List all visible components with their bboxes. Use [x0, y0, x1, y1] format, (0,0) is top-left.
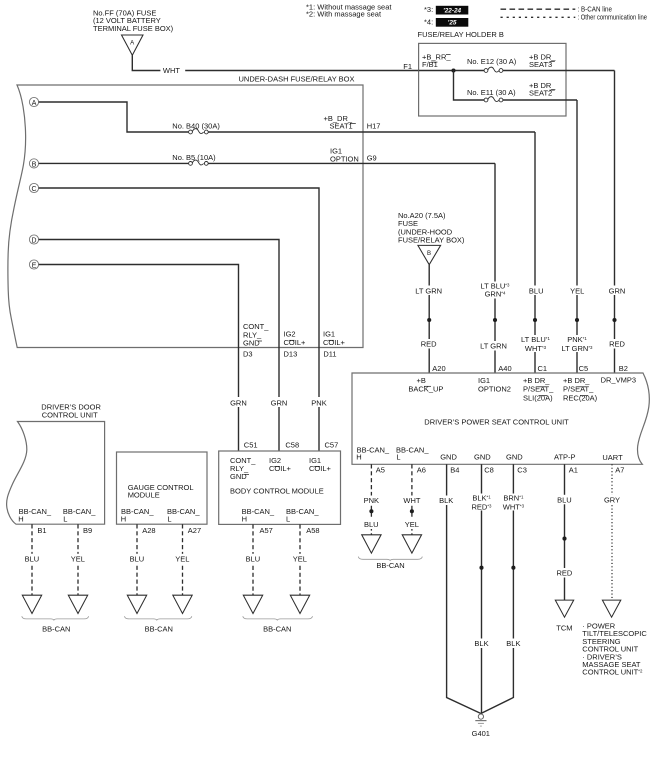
wire label BLU (A5) — [361, 520, 383, 530]
svg-text:’25: ’25 — [448, 20, 457, 27]
svg-text:C8: C8 — [484, 466, 494, 475]
driver's door control unit label — [41, 403, 101, 420]
node junction +B_RR — [451, 68, 455, 72]
wire column to A40 — [494, 163, 496, 373]
wire A28 BB-CAN H — [136, 524, 138, 595]
svg-text:GND: GND — [440, 452, 457, 461]
label IG1 OPTION — [330, 147, 359, 164]
svg-text:BB-CAN: BB-CAN — [42, 625, 70, 634]
off-page connector A28 — [127, 595, 146, 613]
svg-text:L: L — [167, 515, 171, 524]
svg-text:A5: A5 — [376, 466, 385, 475]
wire column to C5 — [576, 100, 578, 373]
node splice B2 — [612, 318, 616, 322]
label BB-CAN_L (body) — [286, 507, 319, 524]
svg-text:SEAT3: SEAT3 — [529, 60, 552, 69]
node splice A1 — [562, 537, 566, 541]
wire A1 ATP-P to TCM — [564, 464, 566, 600]
svg-text:RED: RED — [556, 569, 572, 578]
svg-text:C3: C3 — [517, 466, 527, 475]
label BB-CAN_L (gauge) — [167, 507, 200, 524]
svg-text:L: L — [286, 515, 290, 524]
off-page connector B1 — [22, 595, 41, 613]
wire H17 to C1 column — [363, 131, 535, 133]
driver's door control unit box — [7, 422, 105, 525]
label BB-CAN_L (seat) — [396, 445, 429, 461]
body control module box — [219, 451, 341, 524]
svg-text:*4:: *4: — [424, 17, 433, 26]
label +B DR_SEAT2 — [529, 81, 556, 97]
svg-text:REC(20A): REC(20A) — [563, 393, 598, 402]
node splice C8 — [479, 566, 483, 570]
wire node D to D13 — [39, 240, 279, 348]
wire label RED (A1) — [553, 568, 576, 578]
label BB-CAN_L (door) — [63, 507, 96, 524]
svg-text:C: C — [32, 186, 37, 193]
wire node A to fuse B40 — [39, 102, 189, 132]
svg-text:OPTION: OPTION — [330, 155, 359, 164]
wire label BLK lower (C8) — [470, 639, 493, 649]
svg-text:BODY CONTROL MODULE: BODY CONTROL MODULE — [230, 487, 324, 496]
svg-text:D3: D3 — [243, 350, 253, 359]
wire A27 BB-CAN L — [182, 524, 184, 595]
svg-text:D13: D13 — [284, 350, 298, 359]
svg-text:P/SEAT_: P/SEAT_ — [523, 385, 554, 394]
svg-text:BB-CAN_: BB-CAN_ — [396, 445, 429, 454]
wire D3 to C51 — [238, 348, 240, 452]
wire label BLU (C1) — [524, 286, 548, 296]
svg-text:WHT: WHT — [403, 496, 420, 505]
svg-text:A6: A6 — [417, 466, 426, 475]
svg-text:D11: D11 — [323, 350, 336, 359]
wire label PNK (A5) — [360, 496, 383, 506]
node splice C5 — [575, 318, 579, 322]
wire label YEL (A27) — [172, 554, 194, 564]
label +B DR_SEAT3 — [529, 52, 556, 69]
wire label PNK (D11-C57) — [308, 397, 331, 408]
under-dash fuse/relay box outline — [8, 85, 363, 348]
wire label LT GRN (A20) — [412, 286, 446, 296]
svg-text:OPTION2: OPTION2 — [478, 384, 511, 393]
svg-text:A7: A7 — [615, 466, 624, 475]
off-page connector A27 — [173, 595, 192, 613]
off-page connector B9 — [68, 595, 87, 613]
fuse No. B40 — [189, 129, 209, 134]
label CONT_RLY_GND (body) — [230, 456, 256, 481]
wire label BLK*1 RED*3 (C8) — [469, 493, 495, 511]
legend other communication line sample — [501, 13, 648, 22]
label IG2 COIL+ at D13 — [284, 330, 307, 348]
wire label BLU (A57) — [242, 554, 264, 564]
svg-text:BB-CAN_: BB-CAN_ — [63, 507, 96, 516]
fuse B symbol — [418, 245, 441, 264]
svg-text:B: B — [32, 161, 37, 168]
bracket BB-CAN (body) — [243, 616, 313, 620]
wire label YEL (A6) — [401, 520, 423, 530]
svg-text:BLU: BLU — [25, 554, 40, 563]
wire A58 BB-CAN L — [299, 524, 301, 595]
label IG1 COIL+ (body) — [309, 456, 332, 473]
wire label GRN (D13-C58) — [268, 397, 291, 408]
off-page connector A7 — [602, 600, 620, 617]
legend *4 year badge — [424, 17, 468, 26]
wire fuse B5 to G9 — [208, 162, 363, 164]
connector node A — [29, 97, 38, 107]
wire A6 BB-CAN L — [411, 464, 413, 535]
wire label GRN (B2) — [605, 286, 629, 296]
label power tilt/telescopic destination — [582, 622, 647, 677]
off-page connector A6 — [402, 535, 421, 553]
svg-text:DR_VMP3: DR_VMP3 — [601, 375, 636, 384]
svg-text:BLK: BLK — [474, 639, 488, 648]
svg-text:BLU: BLU — [557, 495, 572, 504]
wire C8 GND to G401 — [481, 464, 483, 714]
svg-text:YEL: YEL — [570, 286, 584, 295]
svg-text:UNDER-DASH FUSE/RELAY BOX: UNDER-DASH FUSE/RELAY BOX — [239, 75, 355, 84]
wire column to B2 — [614, 71, 616, 374]
svg-text:RED: RED — [609, 340, 625, 349]
svg-text:A58: A58 — [306, 526, 319, 535]
wire node B to fuse B5 — [39, 162, 189, 164]
legend *3 year badge — [424, 5, 468, 14]
svg-text:A: A — [32, 100, 37, 107]
svg-text:YEL: YEL — [71, 554, 85, 563]
wire label PNK*1 LT GRN*3 (C5) — [559, 335, 597, 353]
wire label BLU (B1) — [21, 554, 43, 564]
wire fuse A down to WHT run — [132, 55, 160, 70]
svg-text:LT GRN: LT GRN — [480, 342, 507, 351]
gauge control module label — [128, 483, 194, 500]
wire label YEL (A58) — [289, 554, 311, 564]
wire B9 BB-CAN L — [77, 524, 79, 595]
wire label BLU (A1) — [554, 495, 576, 505]
svg-text:CONTROL UNIT*2: CONTROL UNIT*2 — [582, 668, 643, 677]
wire label BLK (B4) — [435, 496, 458, 506]
svg-text:DRIVER’S POWER SEAT CONTROL UN: DRIVER’S POWER SEAT CONTROL UNIT — [424, 417, 569, 426]
svg-text:MODULE: MODULE — [128, 491, 160, 500]
svg-text:YEL: YEL — [175, 554, 189, 563]
svg-text:BB-CAN: BB-CAN — [376, 561, 404, 570]
connector node B — [29, 159, 38, 169]
wire label LT BLU*3 GRN*4 (A40) — [477, 282, 514, 299]
svg-text:COIL+: COIL+ — [309, 464, 332, 473]
svg-text:RED: RED — [421, 340, 437, 349]
svg-text:GRN: GRN — [609, 286, 626, 295]
bracket BB-CAN (door) — [22, 616, 89, 620]
bracket BB-CAN (gauge) — [125, 616, 192, 620]
svg-text:BB-CAN: BB-CAN — [145, 625, 173, 634]
svg-text:A57: A57 — [260, 526, 273, 535]
svg-text:BLK: BLK — [439, 496, 453, 505]
svg-text:H: H — [242, 515, 247, 524]
svg-text:GND: GND — [243, 339, 260, 348]
svg-text:ATP-P: ATP-P — [554, 452, 576, 461]
svg-text:B4: B4 — [450, 466, 459, 475]
svg-text:LT GRN*3: LT GRN*3 — [562, 344, 594, 353]
label +B_DR SEAT1 — [324, 114, 356, 131]
label IG2 COIL+ (body) — [269, 456, 292, 473]
label BB-CAN_H (seat) — [356, 445, 390, 461]
svg-text:TERMINAL FUSE BOX): TERMINAL FUSE BOX) — [93, 24, 174, 33]
off-page connector A1 — [555, 600, 573, 617]
wire A57 BB-CAN H — [252, 524, 254, 595]
wire column to C1 — [534, 132, 536, 373]
wire E12 fuse to right edge — [503, 70, 615, 72]
svg-text:BLU: BLU — [529, 286, 544, 295]
wire label GRY (A7) — [601, 495, 624, 505]
svg-text:A1: A1 — [569, 466, 578, 475]
label +B DR_ P/SEAT_ REC(20A) — [563, 376, 598, 402]
svg-text:YEL: YEL — [405, 520, 419, 529]
svg-text:E: E — [32, 262, 37, 269]
wire label BLU (A28) — [126, 554, 148, 564]
svg-text:P/SEAT_: P/SEAT_ — [563, 385, 594, 394]
svg-text:H: H — [121, 515, 126, 524]
svg-text:COIL+: COIL+ — [323, 338, 346, 347]
connector node C — [29, 183, 38, 193]
svg-text:BB-CAN_: BB-CAN_ — [167, 507, 200, 516]
wire bus F1 to fuse E12 — [419, 70, 485, 72]
svg-text:UART: UART — [602, 453, 623, 462]
wire D13 to C58 — [278, 348, 280, 452]
connector node D — [29, 235, 38, 245]
fuse No. B5 — [189, 160, 209, 165]
off-page connector A5 — [362, 535, 381, 553]
svg-text:A40: A40 — [498, 364, 511, 373]
fuse/relay holder B box — [419, 43, 566, 116]
svg-text:BACK_UP: BACK_UP — [408, 384, 443, 393]
svg-text:FUSE/RELAY BOX): FUSE/RELAY BOX) — [398, 236, 465, 245]
wire label RED (B2) — [606, 339, 629, 349]
svg-text:No. E12 (30 A): No. E12 (30 A) — [467, 57, 517, 66]
svg-text:H: H — [356, 453, 361, 462]
wire A7 UART dotted — [611, 464, 613, 600]
wire E11 branch — [454, 71, 485, 101]
svg-text:A27: A27 — [188, 526, 201, 535]
wire fuse B40 to H17 — [208, 131, 363, 133]
wire label RED (A20) — [417, 339, 441, 349]
svg-text:C5: C5 — [579, 364, 589, 373]
wire D11 to C57 — [318, 348, 320, 452]
fuse A symbol — [122, 35, 144, 55]
wire C3 GND to G401 — [481, 464, 514, 713]
svg-text:C58: C58 — [285, 440, 299, 449]
svg-text:D: D — [32, 237, 37, 244]
wire node C to D11 — [39, 188, 319, 348]
svg-text:COIL+: COIL+ — [269, 464, 292, 473]
svg-text:BLU: BLU — [246, 554, 261, 563]
svg-text:SLI(20A): SLI(20A) — [523, 393, 553, 402]
gauge control module box — [117, 452, 208, 524]
svg-text:F1: F1 — [403, 62, 412, 71]
svg-text:GRY: GRY — [604, 495, 620, 504]
svg-text:*3:: *3: — [424, 5, 433, 14]
svg-text:BLK: BLK — [506, 639, 520, 648]
node splice A6 — [410, 509, 414, 513]
label +B_RR F/B1 — [422, 52, 451, 69]
bracket BB-CAN (seat) — [358, 557, 422, 561]
wire E11 fuse to YEL column — [503, 99, 577, 101]
svg-text:COIL+: COIL+ — [284, 338, 307, 347]
node splice A20 — [427, 318, 431, 322]
node splice C1 — [533, 318, 537, 322]
svg-text:F/B1: F/B1 — [422, 60, 438, 69]
svg-text:C57: C57 — [325, 440, 339, 449]
svg-text:B9: B9 — [83, 526, 92, 535]
wire fuse B to A20 — [428, 265, 430, 373]
svg-text:H17: H17 — [367, 122, 381, 131]
off-page connector A57 — [243, 595, 262, 613]
wire B4 GND to G401 — [447, 464, 481, 713]
svg-text:A28: A28 — [142, 526, 155, 535]
battery fuse FF label — [93, 9, 174, 34]
wire B1 BB-CAN H — [31, 524, 33, 595]
node splice A5 — [369, 509, 373, 513]
wire label BRN*1 WHT*3 (C3) — [500, 493, 527, 511]
legend B-CAN line sample — [501, 5, 613, 14]
wire label LT GRN (A40) — [477, 341, 512, 351]
fuse No. E11 — [484, 97, 503, 102]
wire node E to D3 — [39, 265, 239, 348]
svg-text:G9: G9 — [367, 153, 377, 162]
svg-text:BB-CAN_: BB-CAN_ — [286, 507, 319, 516]
svg-text:L: L — [63, 515, 67, 524]
svg-text:TCM: TCM — [556, 624, 572, 633]
svg-text:PNK: PNK — [311, 399, 326, 408]
svg-text:G401: G401 — [472, 729, 490, 738]
svg-text:L: L — [396, 453, 400, 462]
svg-text:BLU: BLU — [364, 520, 379, 529]
svg-text:H: H — [18, 515, 23, 524]
svg-text:C51: C51 — [244, 440, 258, 449]
label CONT_RLY GND at D3 — [243, 322, 269, 347]
svg-text:B1: B1 — [37, 526, 46, 535]
node splice C3 — [511, 566, 515, 570]
wire WHT to F1 — [185, 70, 418, 72]
svg-text:’22-24: ’22-24 — [443, 8, 462, 15]
label BB-CAN_H (gauge) — [121, 507, 155, 524]
svg-text:GND: GND — [230, 472, 247, 481]
label +B BACK_UP — [408, 376, 443, 393]
node splice A40 — [493, 318, 497, 322]
svg-text:FUSE/RELAY HOLDER B: FUSE/RELAY HOLDER B — [418, 30, 504, 39]
svg-text:LT GRN: LT GRN — [415, 286, 442, 295]
svg-text:WHT: WHT — [163, 66, 180, 75]
label BB-CAN_H (door) — [18, 507, 52, 524]
svg-text:A20: A20 — [432, 364, 445, 373]
ground G401 — [472, 714, 490, 738]
svg-text:C1: C1 — [538, 364, 548, 373]
svg-text:B2: B2 — [619, 364, 628, 373]
label IG1 OPTION2 — [478, 376, 511, 393]
svg-text:GND: GND — [474, 452, 491, 461]
svg-text:PNK: PNK — [364, 496, 379, 505]
label BB-CAN_H (body) — [242, 507, 275, 524]
connector node E — [29, 260, 38, 270]
svg-text:BB-CAN: BB-CAN — [263, 625, 291, 634]
svg-text:: Other communication line: : Other communication line — [578, 13, 648, 22]
label IG1 COIL+ at D11 — [323, 330, 346, 348]
wire label BLK lower (C3) — [502, 639, 525, 649]
driver's power seat control unit box — [352, 373, 649, 464]
fuse No. E12 — [484, 67, 503, 72]
svg-text:SEAT2: SEAT2 — [529, 88, 552, 97]
svg-text:CONTROL UNIT: CONTROL UNIT — [42, 411, 98, 420]
wire label YEL (B9) — [67, 554, 89, 564]
svg-text:B: B — [427, 250, 431, 257]
fuse A20 label — [398, 211, 465, 245]
off-page connector A58 — [290, 595, 309, 613]
label +B DR_ P/SEAT_ SLI(20A) — [523, 376, 554, 402]
wire label LT BLU*1 WHT*3 (C1) — [517, 335, 554, 353]
svg-text:SEAT1: SEAT1 — [330, 122, 353, 131]
svg-text:BLU: BLU — [130, 554, 145, 563]
svg-text:GRN: GRN — [271, 399, 288, 408]
svg-text:GND: GND — [506, 452, 523, 461]
wire label GRN (D3-C51) — [227, 397, 250, 408]
wire G9 to A40 column — [363, 162, 495, 164]
svg-text:No. E11 (30 A): No. E11 (30 A) — [467, 88, 516, 97]
wire label WHT (A6) — [400, 496, 424, 506]
wire label YEL (C5) — [566, 286, 590, 296]
svg-text:*2: With massage seat: *2: With massage seat — [306, 10, 382, 19]
svg-text:GRN: GRN — [230, 399, 247, 408]
svg-text:YEL: YEL — [293, 554, 307, 563]
wire A5 BB-CAN H — [370, 464, 372, 535]
